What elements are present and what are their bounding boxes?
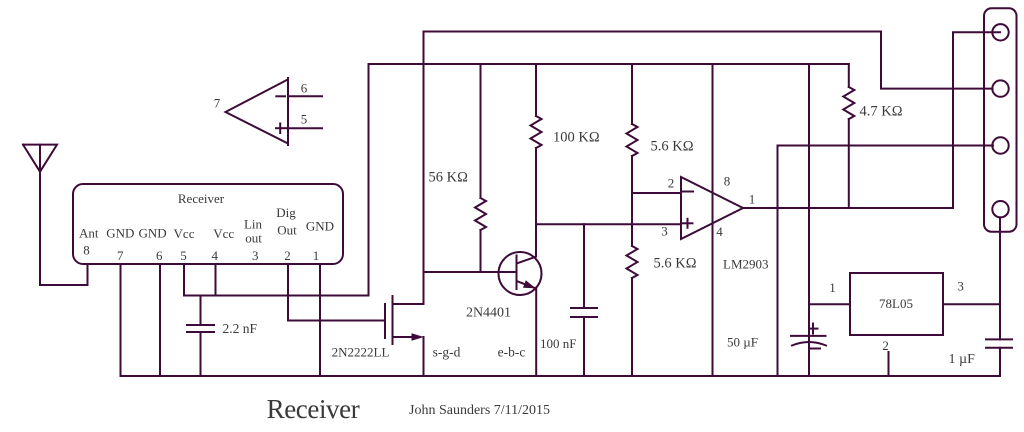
svg-text:4.7 KΩ: 4.7 KΩ: [860, 104, 903, 120]
svg-text:100 KΩ: 100 KΩ: [553, 129, 600, 145]
svg-text:Receiver: Receiver: [267, 394, 360, 424]
svg-text:2: 2: [882, 338, 889, 353]
svg-text:1 µF: 1 µF: [949, 352, 976, 367]
svg-text:Dig: Dig: [276, 205, 296, 220]
svg-text:5: 5: [180, 248, 187, 263]
svg-text:56 KΩ: 56 KΩ: [429, 170, 469, 186]
svg-text:8: 8: [83, 243, 90, 258]
svg-text:3: 3: [957, 279, 964, 294]
svg-text:2: 2: [284, 248, 291, 263]
svg-text:5: 5: [301, 111, 308, 126]
svg-text:3: 3: [252, 248, 259, 263]
svg-text:7: 7: [214, 95, 221, 110]
svg-text:out: out: [245, 231, 262, 246]
svg-text:2N2222LL: 2N2222LL: [332, 345, 390, 360]
svg-text:Ant: Ant: [79, 225, 99, 240]
svg-text:2N4401: 2N4401: [466, 306, 511, 321]
svg-text:1: 1: [313, 248, 320, 263]
svg-text:78L05: 78L05: [879, 296, 913, 311]
svg-text:100 nF: 100 nF: [540, 336, 576, 351]
svg-text:1: 1: [829, 280, 836, 295]
svg-text:LM2903: LM2903: [723, 256, 769, 271]
svg-text:8: 8: [724, 173, 731, 188]
svg-text:Lin: Lin: [244, 216, 263, 231]
svg-text:1: 1: [749, 191, 756, 206]
svg-text:4: 4: [716, 224, 723, 239]
svg-text:John Saunders 7/11/2015: John Saunders 7/11/2015: [409, 403, 550, 418]
svg-text:Out: Out: [277, 223, 297, 238]
svg-text:6: 6: [156, 248, 163, 263]
svg-text:50 µF: 50 µF: [727, 335, 758, 350]
svg-text:2: 2: [668, 175, 675, 190]
svg-text:GND: GND: [106, 225, 134, 240]
svg-text:4: 4: [212, 248, 219, 263]
svg-text:Vcc: Vcc: [174, 226, 195, 241]
svg-text:GND: GND: [139, 225, 167, 240]
svg-text:e-b-c: e-b-c: [498, 345, 526, 360]
svg-text:Vcc: Vcc: [213, 226, 234, 241]
svg-text:s-g-d: s-g-d: [433, 345, 461, 360]
svg-text:5.6 KΩ: 5.6 KΩ: [651, 138, 694, 154]
svg-text:GND: GND: [306, 218, 334, 233]
svg-text:7: 7: [117, 248, 124, 263]
svg-text:Receiver: Receiver: [178, 191, 225, 206]
svg-text:3: 3: [661, 223, 668, 238]
svg-text:2.2 nF: 2.2 nF: [223, 321, 258, 336]
svg-text:6: 6: [301, 80, 308, 95]
svg-text:5.6 KΩ: 5.6 KΩ: [654, 256, 697, 272]
